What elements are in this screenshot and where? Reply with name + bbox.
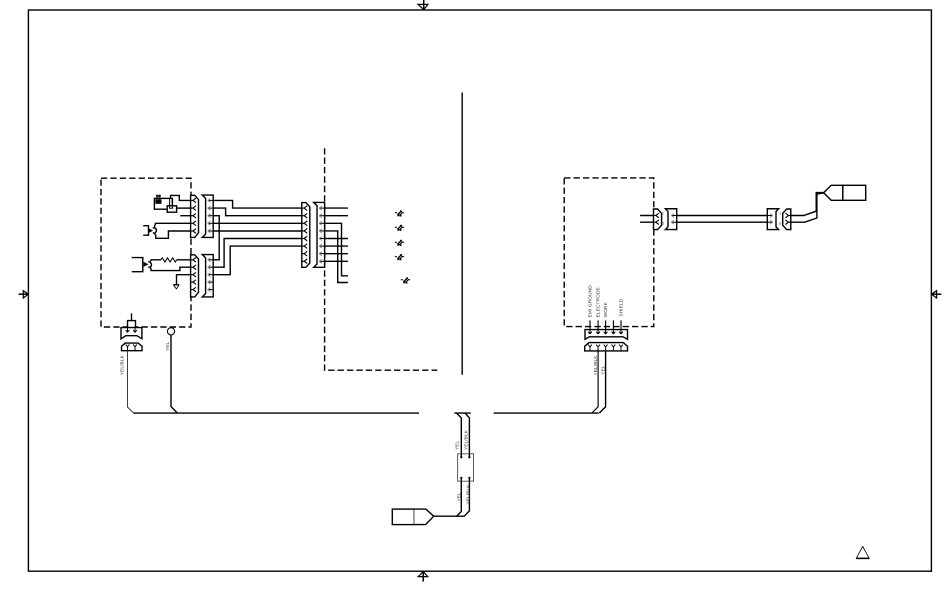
label SHIELD — [619, 298, 625, 316]
label YEL/BLK center top — [463, 429, 468, 450]
connector plug PLG2 (left bottom 5-pin) — [191, 255, 199, 297]
wires inside right box to PLG8 — [640, 216, 653, 223]
dashed boundary line center — [325, 148, 438, 370]
svg-text:ELECTRODE: ELECTRODE — [595, 287, 601, 317]
alignment arrow top — [418, 0, 428, 10]
wire pair RC8 to RC9 — [677, 216, 768, 223]
svg-text:WORK: WORK — [603, 301, 609, 317]
svg-text:1: 1 — [779, 212, 781, 216]
wire harness RC1/RC2 to PLG3 — [213, 200, 302, 274]
wire YEL left drop — [171, 335, 178, 413]
label YEL/BLK center bottom — [466, 484, 471, 505]
label YEL/BLK right — [593, 355, 598, 376]
label YEL/BLK — [119, 354, 124, 375]
ground — [173, 285, 179, 289]
pin numbers PLG9 — [779, 212, 781, 226]
svg-text:6: 6 — [779, 222, 781, 226]
wire YEL center lower — [434, 481, 462, 516]
svg-text:YEL/BLK: YEL/BLK — [463, 429, 468, 450]
wires into PLG7 — [590, 320, 621, 329]
wire to plug PLG10 lower — [791, 193, 824, 222]
label YEL right — [601, 365, 606, 375]
label EMI GROUND — [587, 285, 593, 318]
connector receptacle RC4 (2-pin) — [122, 343, 143, 351]
svg-text:YEL: YEL — [601, 365, 606, 375]
wire thermostat leads — [171, 195, 191, 208]
connector receptacle RC8 (2-pin) — [665, 209, 676, 230]
pin numbers PLG8 — [662, 212, 664, 226]
svg-text:5: 5 — [662, 222, 664, 226]
wire YEL/BLK left drop — [128, 351, 134, 413]
wire YEL center drop — [457, 413, 462, 454]
alignment arrow bottom — [418, 571, 428, 581]
wire stubs right of RC3 — [325, 208, 348, 282]
connector receptacle RC9 (2-pin mirrored) — [767, 209, 778, 230]
svg-text:SHIELD: SHIELD — [619, 298, 625, 316]
component W1 stem — [128, 313, 136, 327]
bullet connector pair J2 — [143, 223, 191, 238]
wire YEL/BLK center drop — [465, 413, 469, 454]
right dashed enclosure — [564, 178, 654, 327]
wire YEL right drop — [599, 351, 605, 413]
connector plug PLG8 (2-pin) — [654, 209, 662, 230]
thermostat S1 — [154, 195, 176, 213]
svg-text:YEL/BLK: YEL/BLK — [466, 484, 471, 505]
inline connector PLG5 — [458, 454, 474, 481]
connector receptacle RC2 (left bottom 5-pin) — [202, 255, 213, 297]
label ELECTRODE — [595, 287, 601, 317]
label YEL center bottom — [456, 492, 461, 502]
solid divider line — [461, 93, 463, 375]
plug PLG10 cable end right — [824, 185, 866, 200]
node continuation symbols — [395, 211, 410, 284]
connector plug PLG4 (2-pin) — [121, 326, 142, 339]
plug PLG6 bottom cable end — [392, 509, 434, 524]
svg-text:YEL/BLK: YEL/BLK — [593, 355, 598, 376]
svg-text:YEL: YEL — [456, 492, 461, 502]
svg-text:YEL/BLK: YEL/BLK — [119, 354, 124, 375]
bullet connector pair J3 with resistor R1 — [132, 258, 191, 272]
wire YEL/BLK center lower — [457, 481, 470, 516]
wire stub pin3 — [180, 215, 191, 217]
connector plug PLG7 (5-pin gas/torch) — [585, 328, 628, 339]
connector plug PLG1 (left top 5-pin) — [191, 195, 199, 237]
svg-text:YEL: YEL — [165, 341, 170, 351]
wire bus left segment — [134, 412, 419, 414]
resistor R1 — [161, 258, 191, 262]
wire bus center stub — [454, 412, 470, 414]
terminal ring YEL — [167, 328, 174, 335]
revision triangle — [856, 547, 869, 559]
label YEL center top — [455, 440, 460, 450]
connector plug PLG3 (middle 8-pin) — [302, 203, 310, 268]
svg-text:2: 2 — [662, 212, 664, 216]
label YEL — [165, 341, 170, 351]
svg-text:EMI GROUND: EMI GROUND — [587, 285, 593, 318]
label WORK — [603, 301, 609, 317]
connector receptacle RC3 (middle 8-pin) — [314, 202, 325, 267]
wire to plug PLG10 upper — [791, 193, 824, 216]
wire bus right segment — [494, 412, 599, 414]
left dashed enclosure PC1 — [101, 178, 191, 327]
connector receptacle RC7 (5-pin) — [585, 343, 628, 351]
svg-text:YEL: YEL — [455, 440, 460, 450]
alignment arrow left — [19, 291, 29, 298]
connector plug PLG9 (2-pin mirrored) — [783, 209, 791, 230]
wire to ground — [177, 275, 191, 285]
alignment arrow right — [931, 291, 941, 298]
wire YEL/BLK right drop — [592, 351, 598, 413]
connector receptacle RC1 (left top 5-pin) — [202, 195, 213, 237]
